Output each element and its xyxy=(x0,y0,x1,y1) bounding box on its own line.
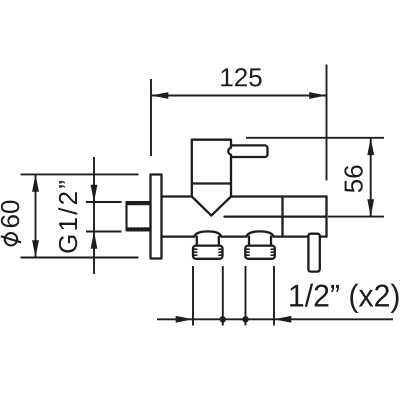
outlet 2 cap xyxy=(245,246,274,259)
label 125 xyxy=(221,68,261,86)
label phi60 digits xyxy=(1,201,19,228)
cartridge xyxy=(192,140,231,197)
arrow G12 up xyxy=(91,232,98,249)
dim 56 line xyxy=(370,138,372,217)
outlet 1 cap xyxy=(193,246,223,259)
dim G12 ext line bottom xyxy=(86,231,122,233)
body right edge xyxy=(325,197,327,237)
nipple thread top xyxy=(127,203,150,206)
arrow 56 top xyxy=(367,138,374,155)
valve cone V xyxy=(192,197,231,216)
dim G12 line xyxy=(93,157,95,274)
wall flange xyxy=(151,175,162,259)
dim bottom line xyxy=(157,318,393,320)
body top edge left xyxy=(162,195,192,197)
dim bottom ext line 4 xyxy=(273,266,275,326)
dim bottom ext line 1 xyxy=(192,266,194,326)
dim phi60 ext line bottom xyxy=(21,257,139,259)
wall nipple G1/2 xyxy=(127,202,151,231)
dim 125 ext line right xyxy=(326,65,328,181)
handle lever xyxy=(228,145,267,157)
arrow 125 left xyxy=(151,92,168,99)
dim 125 ext line left xyxy=(150,79,152,156)
body top edge right xyxy=(231,195,327,197)
outlet 2 dome xyxy=(247,231,274,236)
outlet 2 cap knurl xyxy=(246,249,275,255)
dim 125 line xyxy=(151,95,327,97)
arrow G12 down xyxy=(91,185,98,202)
label G1/2 xyxy=(58,181,77,253)
dim bottom ext line 2 xyxy=(222,266,224,326)
arrow phi60 top xyxy=(32,174,39,191)
dim phi60 ext line top xyxy=(21,173,139,175)
outlet 2 neck xyxy=(249,237,271,246)
body bottom edge xyxy=(162,235,327,237)
cartridge seam xyxy=(192,182,231,184)
outlet 1 neck xyxy=(197,237,219,246)
outlet 1 dome xyxy=(194,231,221,236)
body seam vertical xyxy=(281,197,283,237)
label 1/2 x2 xyxy=(290,284,398,313)
nipple thread bottom xyxy=(127,227,150,230)
dim origin dot 1 xyxy=(220,316,226,322)
label 56 xyxy=(344,165,362,192)
label phi60 diameter symbol xyxy=(1,233,21,245)
arrow phi60 bottom xyxy=(32,240,39,257)
arrow 56 bottom xyxy=(367,199,374,216)
dim bottom ext line 3 xyxy=(245,266,247,326)
dim 56 ext line top xyxy=(246,137,384,139)
body mid line outlet axis xyxy=(225,215,327,217)
dim origin dot 2 xyxy=(242,316,248,322)
arrow bottom right-pointing xyxy=(176,316,193,323)
dim 56 ext line bottom xyxy=(328,216,384,218)
down pipe xyxy=(308,234,319,272)
dim G12 ext line top xyxy=(86,201,122,203)
arrow bottom left-pointing xyxy=(274,316,291,323)
dim phi60 line xyxy=(35,174,37,257)
arrow 125 right xyxy=(309,92,326,99)
outlet 1 cap knurl xyxy=(193,249,222,255)
